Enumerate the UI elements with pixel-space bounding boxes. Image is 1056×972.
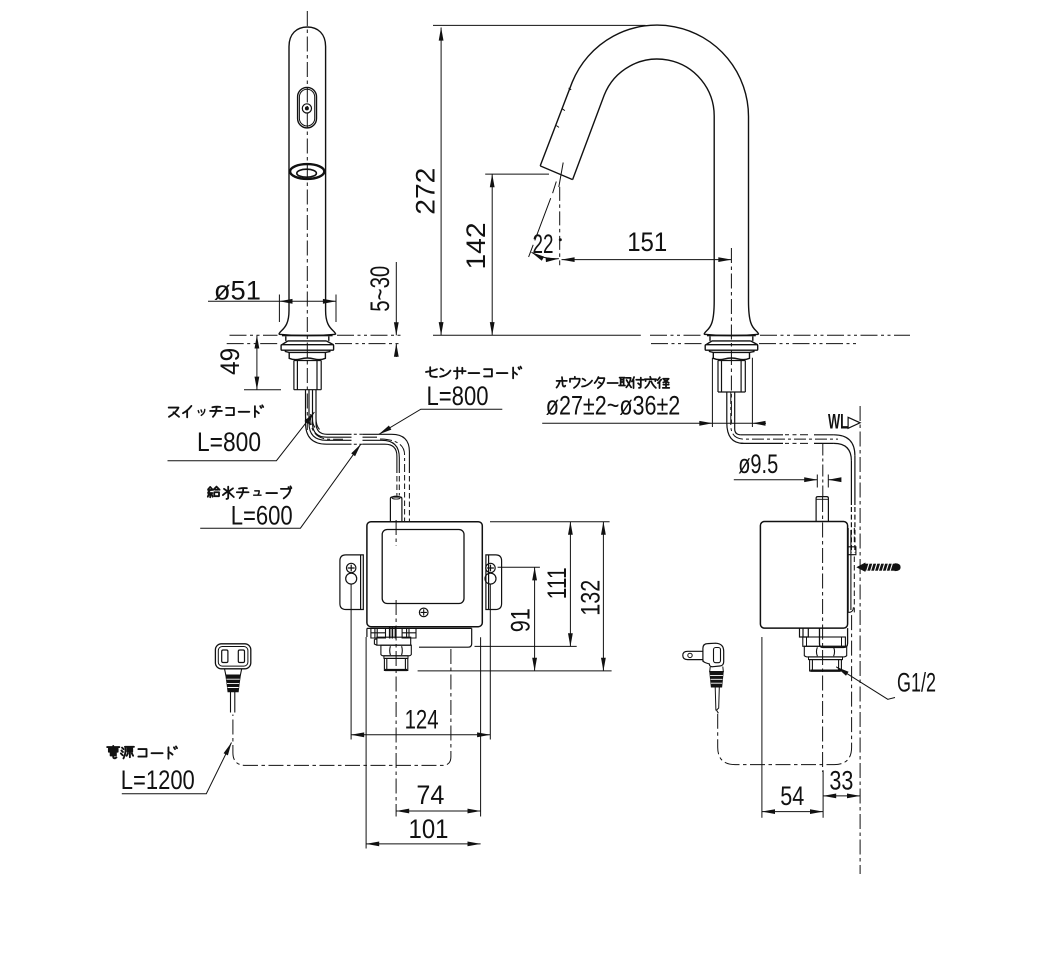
left bundle hidden ends xyxy=(397,475,410,522)
power cord side view xyxy=(718,614,852,765)
spout outlet ring outer xyxy=(290,164,324,179)
counter hole dim line xyxy=(542,422,712,424)
label supply tube xyxy=(208,486,292,499)
svg-text:ø27±2~ø36±2: ø27±2~ø36±2 xyxy=(546,391,681,421)
dims 54/33 extensions xyxy=(762,637,823,818)
svg-text:ø9.5: ø9.5 xyxy=(738,449,778,479)
flange shoulders xyxy=(282,341,334,345)
dim 142 xyxy=(491,174,493,335)
wall line xyxy=(859,406,861,874)
label switch cord xyxy=(169,405,264,417)
svg-text:L=600: L=600 xyxy=(231,501,293,531)
left bundle break marks xyxy=(354,434,363,444)
base heavy rim xyxy=(279,334,336,335)
label power cord xyxy=(107,746,177,759)
front box body xyxy=(367,522,482,627)
svg-text:74: 74 xyxy=(416,780,444,810)
right mounting ear xyxy=(486,555,502,610)
left bundle centerline xyxy=(311,414,343,439)
side box centerline xyxy=(822,497,824,772)
faucet front view body (dome + column) xyxy=(289,27,326,311)
dim o9.5 extensions xyxy=(817,475,828,488)
dim 142 extension xyxy=(485,173,549,175)
spout tip face xyxy=(540,166,572,180)
dim 111 xyxy=(569,522,571,647)
wall screw xyxy=(857,563,900,571)
middle locknut xyxy=(713,352,749,359)
spout outlet ring inner xyxy=(297,169,317,177)
middle bundle left elbow xyxy=(727,423,744,444)
middle view dimension group xyxy=(433,25,731,335)
plug front view xyxy=(215,644,250,713)
dim 49 xyxy=(244,389,281,391)
svg-text:33: 33 xyxy=(829,766,853,796)
cords along wall xyxy=(851,456,855,505)
dim 124 xyxy=(351,734,490,736)
gooseneck inner profile xyxy=(573,59,715,301)
collar under rim xyxy=(286,336,329,341)
left bundle line 4 (inner top) xyxy=(316,390,409,473)
svg-text:L=800: L=800 xyxy=(197,427,261,457)
angle vertex dot xyxy=(559,238,562,241)
middle base heavy rim xyxy=(704,334,759,335)
side valve hex nut xyxy=(804,646,846,657)
svg-text:111: 111 xyxy=(542,567,572,599)
middle collar xyxy=(710,336,753,341)
svg-text:272: 272 xyxy=(411,168,441,215)
left tube stub into box xyxy=(390,497,402,522)
dim ø51 xyxy=(279,295,336,323)
svg-text:L=800: L=800 xyxy=(427,381,489,411)
middle step ring xyxy=(710,350,754,352)
sensor target circle xyxy=(302,104,311,113)
sensor window inner xyxy=(299,89,314,126)
middle bundle horizontal tube xyxy=(741,435,783,444)
svg-text:ø51: ø51 xyxy=(214,276,261,306)
lower housing xyxy=(367,628,472,647)
gooseneck faucet outer profile xyxy=(540,25,748,301)
counter hole dim extensions xyxy=(712,358,752,427)
front box inner panel xyxy=(382,530,464,604)
dim 54 xyxy=(762,811,823,813)
svg-text:101: 101 xyxy=(409,814,449,844)
middle faucet centerline xyxy=(730,248,732,424)
svg-text:22: 22 xyxy=(533,229,554,259)
dim 74 xyxy=(396,810,481,812)
dim 91 xyxy=(534,567,536,671)
left mounting ear xyxy=(340,555,363,610)
side plug xyxy=(683,643,724,713)
left bundle line 2 xyxy=(309,390,399,473)
svg-text:49: 49 xyxy=(215,348,245,375)
middle bundle right elbow xyxy=(834,435,855,461)
svg-text:151: 151 xyxy=(627,227,667,257)
dim 124 extensions xyxy=(351,584,490,740)
label counter hole line1 xyxy=(557,377,670,388)
tip vertical centerline xyxy=(559,187,561,265)
cords below shank xyxy=(306,390,320,430)
sensor window outer xyxy=(298,87,317,128)
svg-text:91: 91 xyxy=(506,608,536,632)
valve centerline front xyxy=(395,520,397,817)
left bundle line 1 (outer) xyxy=(306,390,397,473)
right keyhole xyxy=(486,563,495,572)
power cord front view xyxy=(233,649,451,765)
middle faucet flare xyxy=(704,301,759,334)
faucet front view centerline xyxy=(306,11,308,430)
spout sensor notches xyxy=(556,88,571,127)
svg-text:5~30: 5~30 xyxy=(365,266,395,312)
dim 74/101 extensions xyxy=(366,637,481,849)
base flare xyxy=(279,311,336,335)
dim 33 xyxy=(823,795,860,797)
wall bracket xyxy=(848,528,851,612)
dim 272 extension bottom xyxy=(433,334,641,336)
dim 5~30 xyxy=(395,262,397,335)
middle tube stub into box xyxy=(816,497,828,522)
svg-text:124: 124 xyxy=(405,705,439,735)
svg-text:L=1200: L=1200 xyxy=(121,765,195,795)
threaded shank xyxy=(294,361,321,390)
counter lines left view xyxy=(227,335,402,343)
middle flange shoulders xyxy=(706,341,758,345)
middle escutcheon flange xyxy=(705,345,758,351)
locknut xyxy=(289,352,325,359)
middle threaded shank xyxy=(718,361,745,393)
step ring xyxy=(285,350,329,352)
side box body xyxy=(760,522,847,629)
left view dimension group xyxy=(208,262,396,390)
side valve plate xyxy=(803,637,846,646)
valve plate xyxy=(374,637,410,645)
front box dims extensions xyxy=(490,521,610,523)
angle arc 22 xyxy=(532,252,559,258)
valve cords center xyxy=(390,627,396,639)
spout axis extension xyxy=(529,163,564,258)
front panel screw xyxy=(419,608,428,617)
middle bundle tube verticals xyxy=(727,392,735,423)
middle bundle centerline xyxy=(731,392,838,439)
svg-text:54: 54 xyxy=(780,781,804,811)
side lower housing xyxy=(820,628,848,647)
label sensor cord xyxy=(426,367,521,379)
G1/2 outlet front xyxy=(384,658,407,670)
left bundle line 3 xyxy=(313,390,378,438)
front box dimension group xyxy=(351,520,611,849)
middle bundle break marks xyxy=(785,435,808,444)
valve fittings row xyxy=(371,628,416,638)
left keyhole xyxy=(347,563,356,572)
side G1/2 outlet xyxy=(810,660,842,671)
svg-text:WL: WL xyxy=(828,411,848,434)
side valve washer xyxy=(809,657,843,660)
valve hex nut xyxy=(381,645,411,656)
dim 272 xyxy=(440,28,442,336)
svg-text:G1/2: G1/2 xyxy=(897,668,936,698)
svg-text:132: 132 xyxy=(576,580,606,616)
dim 272 extension top xyxy=(433,24,646,26)
dim 151 xyxy=(562,259,732,261)
dim 132 xyxy=(602,522,604,671)
dim o9.5 xyxy=(734,479,818,481)
counter lines middle view xyxy=(650,335,910,343)
side valve fitting xyxy=(800,629,809,638)
svg-text:142: 142 xyxy=(461,223,491,270)
dim 101 xyxy=(366,843,481,845)
escutcheon flange xyxy=(281,345,334,351)
supply tube centerline into box xyxy=(822,444,824,497)
valve washer xyxy=(384,656,408,659)
